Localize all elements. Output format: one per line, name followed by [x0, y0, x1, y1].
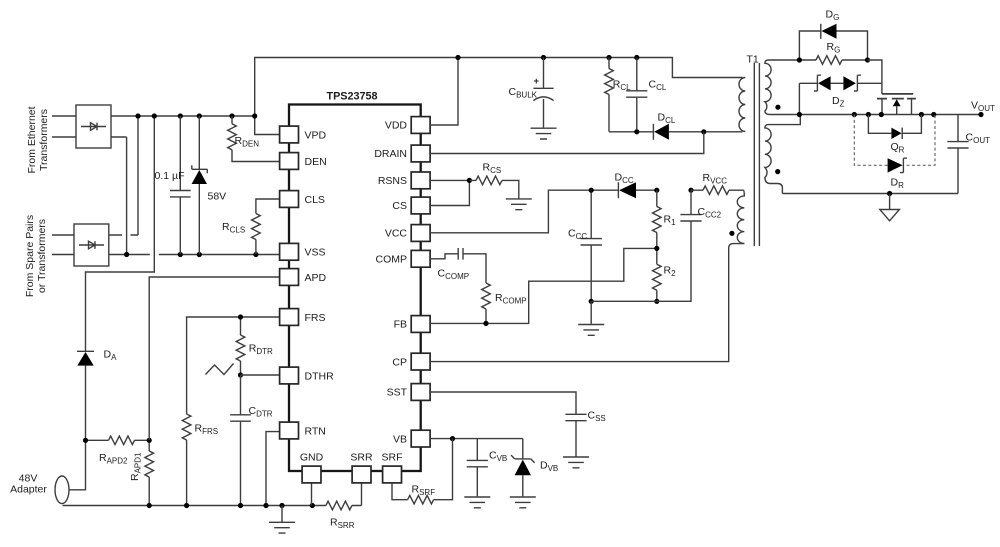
node top rail junction dots [455, 55, 639, 60]
pin VDD [385, 117, 430, 134]
wire bridge2 inputs [52, 235, 74, 255]
wire top rail to transformer [255, 58, 743, 117]
transistor QR MOSFET [868, 60, 916, 115]
svg-text:COMP: COMP [376, 254, 408, 266]
pin CLS [280, 191, 325, 208]
svg-text:Transformers: Transformers [38, 109, 50, 171]
transformer T1 core [754, 63, 759, 246]
svg-text:CP: CP [392, 356, 407, 368]
resistor RCLS [222, 199, 280, 255]
svg-text:RTN: RTN [305, 425, 326, 437]
wire VSS rail [109, 254, 280, 256]
label From Spare Pairs or Transformers [24, 215, 48, 297]
node VB junction dot [450, 436, 455, 441]
pin SRR [350, 452, 373, 483]
node clamp junction dots [634, 129, 706, 134]
wire SST line [430, 392, 576, 414]
transformer T1 aux winding [737, 190, 744, 243]
wire FRS line [187, 317, 280, 414]
pin SST [387, 384, 431, 401]
svg-text:0.1 µF: 0.1 µF [155, 170, 185, 182]
svg-text:T1: T1 [747, 54, 759, 66]
pin DEN [280, 153, 327, 170]
node junction dots VSS rail [124, 252, 259, 257]
pin VB [393, 430, 430, 447]
svg-text:or Transformers: or Transformers [36, 219, 48, 293]
diode DCL [653, 112, 675, 140]
svg-text:SRR: SRR [350, 452, 373, 464]
wire clamp bottom line [609, 131, 743, 133]
node FRS/DTR junction dots [238, 314, 243, 377]
pin COMP [376, 250, 431, 267]
pin DTHR [280, 367, 334, 384]
resistor RAPD2 [86, 436, 150, 466]
dashed box QR module [854, 115, 935, 166]
pin GND [300, 452, 324, 483]
wire RTN line [266, 432, 280, 506]
ground CCC [578, 325, 604, 336]
transformer T1 secondary winding 1 [765, 60, 800, 115]
wire adapter feed riser [86, 116, 155, 351]
wire output bottom rail [782, 193, 958, 195]
pin VSS [280, 243, 326, 260]
resistor RG [799, 41, 867, 64]
zener diode DVB [511, 439, 558, 497]
resistor RSRF [392, 439, 453, 504]
pin RSNS [378, 172, 430, 189]
ground DVB [510, 497, 536, 508]
node adapter junction dots [83, 438, 152, 443]
capacitor CCOMP [430, 248, 486, 283]
svg-text:FRS: FRS [305, 312, 326, 324]
node bottom rail ground dot [887, 191, 892, 196]
node secondary2 polarity dot [775, 169, 780, 174]
resistor R1 [653, 190, 677, 248]
ground CBULK [531, 128, 557, 139]
wire bridge1 minus output riser [111, 137, 127, 255]
transformer T1 secondary winding 2 [765, 115, 800, 194]
capacitor CCL [626, 58, 667, 132]
pin VCC [385, 225, 430, 242]
svg-text:CLS: CLS [305, 194, 325, 206]
node FB junction dot [483, 321, 488, 326]
label From Ethernet Transformers [26, 106, 50, 173]
resistor RAPD1 [129, 440, 154, 505]
ground CSS [563, 457, 589, 468]
wire divider bottom link [591, 221, 691, 324]
svg-text:FB: FB [394, 319, 407, 331]
ground CVB [464, 497, 490, 508]
node secondary1 polarity dot [775, 105, 780, 110]
svg-text:SRF: SRF [382, 452, 403, 464]
zener pair DZ [799, 75, 882, 108]
transformer T1 primary winding [739, 78, 745, 132]
svg-text:TPS23758: TPS23758 [326, 91, 377, 103]
wire bridge2 plus output riser [109, 116, 138, 235]
svg-text:CS: CS [392, 200, 407, 212]
diode bridge B1 (Ethernet) [76, 105, 111, 148]
pin CS [392, 197, 430, 214]
svg-text:VPD: VPD [305, 129, 327, 141]
svg-text:VB: VB [393, 433, 407, 445]
diode DG [821, 9, 840, 39]
node R1/R2 junction dots [589, 246, 660, 304]
svg-text:RSNS: RSNS [378, 175, 407, 187]
node aux winding polarity dot [729, 231, 734, 236]
wire DTHR line [241, 374, 280, 376]
diode DA (adapter) [77, 349, 117, 441]
pin APD [280, 269, 327, 286]
svg-text:APD: APD [305, 272, 327, 284]
node gate network dots [797, 57, 870, 62]
wire bottom return rail [63, 483, 362, 506]
ground output (open triangle) [880, 194, 900, 221]
wire DRAIN line [430, 132, 704, 154]
diode QR body [868, 115, 921, 155]
svg-text:From Spare Pairs: From Spare Pairs [24, 215, 36, 297]
resistor RVCC [691, 172, 744, 195]
ground RCS [506, 199, 532, 210]
svg-text:+: + [534, 76, 540, 87]
node VOUT rail dots [797, 112, 984, 117]
diode DCC [591, 172, 657, 199]
wire gate drive node riser [799, 31, 867, 115]
resistor RFRS [182, 414, 218, 506]
ground main return [269, 506, 295, 534]
wire VCC line [430, 190, 591, 233]
node RSNS junction dot [467, 178, 472, 183]
resistor RDTR [236, 317, 273, 375]
wire VDD riser [430, 58, 458, 126]
wire VOUT rail [799, 114, 981, 116]
svg-text:58V: 58V [208, 191, 227, 203]
resistor RCL [605, 58, 631, 132]
diode DR [888, 158, 907, 190]
resistor R2 [653, 248, 677, 301]
wire APD line [149, 277, 279, 440]
capacitor CCC2 [680, 190, 721, 221]
pin SRF [382, 452, 403, 483]
resistor RDEN [228, 116, 280, 162]
pin FB [394, 316, 431, 333]
wire RSNS-CS tie [430, 180, 469, 205]
pin RTN [280, 422, 326, 439]
wire GND pin stub [311, 483, 313, 506]
pin FRS [280, 309, 326, 326]
resistor RCS [469, 162, 518, 199]
wire bridge1 inputs [52, 116, 76, 137]
node bottom rail junction dots [147, 503, 315, 508]
wire FB line [430, 248, 657, 323]
capacitor CDTR [230, 375, 273, 506]
pin CP [392, 353, 430, 370]
diode bridge B2 (Spare pairs) [74, 224, 109, 266]
svg-text:VDD: VDD [385, 120, 408, 132]
capacitor 0.1uF [155, 116, 191, 255]
svg-text:Adapter: Adapter [10, 484, 47, 496]
svg-text:VSS: VSS [305, 247, 326, 259]
svg-text:GND: GND [300, 452, 324, 464]
capacitor CVB [467, 439, 508, 497]
node VCC node dots [589, 188, 694, 193]
wire positive rail to VPD [111, 116, 280, 135]
svg-text:From Ethernet: From Ethernet [26, 106, 38, 173]
connector 48V Adapter [10, 440, 85, 503]
wire VB line [430, 438, 523, 440]
zener diode 58V [192, 116, 227, 255]
sawtooth waveform icon [206, 364, 234, 375]
op-amp U1 TPS23758 IC body [289, 105, 421, 472]
capacitor COUT [947, 115, 990, 194]
capacitor CBULK (polarized) [509, 58, 554, 128]
resistor RSRR [326, 501, 355, 530]
svg-text:DTHR: DTHR [305, 370, 335, 382]
pin VPD [280, 126, 327, 143]
wire CP line to aux winding [430, 244, 744, 362]
svg-text:SST: SST [387, 387, 408, 399]
resistor RCOMP [482, 283, 527, 323]
node junction dots positive rail [135, 113, 257, 118]
svg-text:DEN: DEN [305, 156, 327, 168]
capacitor CCC [568, 190, 602, 301]
svg-text:VCC: VCC [385, 228, 408, 240]
svg-text:DRAIN: DRAIN [374, 148, 407, 160]
pin DRAIN [374, 145, 430, 162]
capacitor CSS [565, 410, 605, 457]
